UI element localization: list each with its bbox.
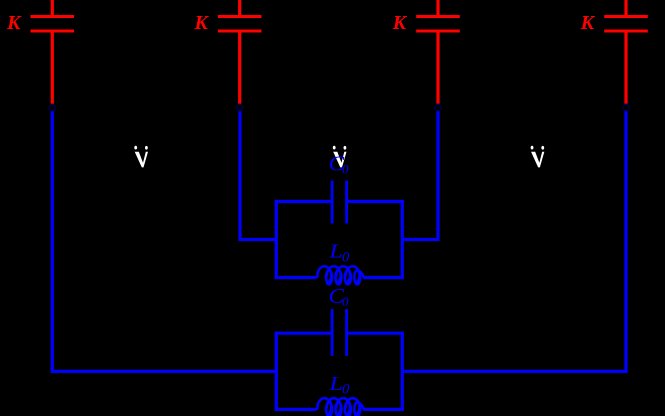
svg-text:K: K: [580, 12, 596, 34]
svg-text:K: K: [194, 12, 210, 34]
svg-text:0: 0: [342, 381, 349, 397]
svg-text:L: L: [328, 241, 342, 263]
svg-text:0: 0: [342, 295, 349, 309]
svg-text:0: 0: [342, 249, 349, 265]
svg-text:K: K: [6, 12, 22, 34]
svg-text:0: 0: [342, 162, 349, 176]
svg-text:L: L: [328, 373, 342, 395]
svg-text:K: K: [392, 12, 408, 34]
